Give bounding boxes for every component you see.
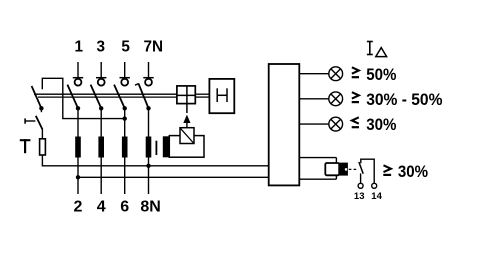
wire to lamp 1	[299, 73, 329, 75]
svg-text:4: 4	[97, 199, 106, 216]
terminal circle 1	[73, 78, 83, 86]
terminal label 5	[121, 38, 130, 55]
CT secondary winding	[163, 136, 170, 157]
lamp 1 value label	[352, 65, 397, 84]
wire staple from test contact to pole 5 tap	[42, 78, 124, 118]
actuation arrow to mechanism	[183, 115, 190, 128]
residual current symbol I delta	[367, 42, 387, 57]
terminal label 4	[97, 199, 106, 216]
switch blade pole 3	[91, 85, 102, 109]
wire stub terminal 1	[77, 62, 79, 78]
terminal label 1	[74, 38, 83, 55]
terminal label 2	[74, 199, 83, 216]
junction node on pole 5	[123, 116, 127, 120]
svg-text:7N: 7N	[144, 38, 164, 55]
terminal label 3	[96, 38, 105, 55]
terminal circle 5	[120, 78, 130, 86]
mechanism latch box with cross	[177, 86, 195, 113]
svg-text:5: 5	[121, 38, 130, 55]
terminal circle 3	[96, 78, 106, 86]
indicator lamp 2	[329, 92, 343, 106]
terminal label 6	[120, 199, 129, 216]
svg-text:6: 6	[120, 199, 129, 216]
handle symbol H	[217, 88, 227, 102]
svg-text:30% - 50%: 30% - 50%	[366, 90, 442, 109]
terminal label 14	[371, 191, 382, 202]
svg-text:3: 3	[96, 38, 105, 55]
wire pole 7N vertical	[148, 108, 150, 194]
mechanical linkage double line right	[195, 94, 209, 97]
test pushbutton blade	[36, 116, 43, 130]
test label T	[20, 139, 31, 153]
switch blade pole 1	[67, 85, 78, 109]
wire pole 3 vertical	[100, 108, 102, 194]
svg-text:30%: 30%	[398, 162, 428, 181]
terminal circle 13	[358, 183, 363, 188]
svg-text:30%: 30%	[366, 115, 396, 134]
lamp 3 value label	[352, 115, 397, 134]
test contact blade	[32, 86, 42, 108]
hinge junction pole 7N	[146, 106, 150, 110]
CT primary winding pole 1	[75, 137, 81, 158]
CT primary winding pole 5	[122, 137, 128, 158]
indicator lamp 3	[329, 117, 343, 131]
trip relay housing	[169, 136, 204, 158]
connector plug head	[339, 163, 348, 176]
switch blade pole 7N	[135, 84, 149, 109]
test contact hinge junction	[39, 106, 43, 110]
dashed link to auxiliary contact	[349, 168, 358, 170]
wire pole 5 vertical	[124, 108, 126, 194]
junction node 8N on upper bottom bus	[146, 164, 150, 168]
CT primary winding pole 7N	[146, 137, 152, 158]
svg-text:50%: 50%	[366, 65, 396, 84]
wire stub terminal 5	[124, 62, 126, 78]
indicator lamp 1	[329, 67, 343, 81]
wire pole 2 to electronics (lower bottom bus)	[78, 176, 269, 178]
hinge junction pole 5	[123, 106, 127, 110]
hinge junction pole 1	[76, 106, 80, 110]
lamp 2 value label	[352, 90, 443, 109]
switch blade pole 5	[114, 85, 125, 109]
test pushbutton upper stub	[40, 108, 42, 112]
manual actuator box	[209, 79, 234, 113]
wire pole 1 vertical	[77, 108, 79, 194]
electronics module block	[269, 64, 300, 185]
terminal label 8N	[140, 199, 160, 216]
mechanical linkage double line left	[34, 94, 177, 97]
wire resistor to electronics (upper bottom bus)	[42, 155, 268, 166]
hinge junction pole 3	[99, 106, 103, 110]
CT core bar	[155, 141, 157, 155]
test pushbutton actuator	[25, 118, 35, 123]
wire to lamp 3	[299, 123, 329, 125]
svg-text:2: 2	[74, 199, 83, 216]
svg-text:13: 13	[354, 191, 365, 202]
wire stub terminal 7N	[148, 62, 150, 78]
auxiliary contact 13-14	[359, 159, 374, 183]
junction node pole 2 on lower bottom bus	[76, 175, 80, 179]
trip release element with slash	[180, 128, 194, 144]
CT primary winding pole 3	[98, 137, 104, 158]
terminal label 13	[354, 191, 365, 202]
terminal label 7N	[144, 38, 164, 55]
wire to lamp 2	[299, 98, 329, 100]
connector plug housing	[325, 163, 339, 175]
terminal circle 7N	[143, 78, 153, 86]
resistor R test	[40, 139, 46, 155]
svg-text:8N: 8N	[140, 199, 160, 216]
svg-text:14: 14	[371, 191, 382, 202]
test pushbutton lower stub	[41, 130, 43, 139]
svg-text:1: 1	[74, 38, 83, 55]
auxiliary contact value label	[383, 162, 428, 181]
connector bracket from module	[299, 158, 336, 180]
wire stub terminal 3	[100, 62, 102, 78]
terminal circle 14	[372, 183, 377, 188]
